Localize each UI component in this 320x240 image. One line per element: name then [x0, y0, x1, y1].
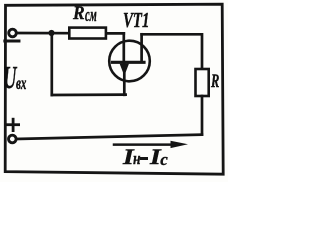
label Rcm value text — [0, 0, 228, 1]
transistor VT1 drain lead — [140, 34, 143, 62]
wire: load resistor down to bottom rail — [201, 96, 204, 135]
label R load resistor — [211, 72, 219, 91]
terminal: input top (-) — [9, 29, 17, 37]
transistor VT1 (p-channel FET) envelope circle — [109, 41, 150, 82]
label VT1 reference designator — [123, 11, 149, 32]
resistor R (load) body — [196, 69, 209, 96]
terminal: input bottom (+) — [9, 135, 17, 143]
wire: bottom rail — [17, 135, 203, 139]
resistor Rcm (bias resistor) body — [69, 28, 106, 39]
wire: drain to load resistor — [142, 34, 202, 69]
minus polarity mark — [5, 40, 19, 43]
label Uвх input voltage — [0, 0, 228, 1]
junction: node at top rail — [48, 30, 54, 36]
label In = Ic current text — [0, 0, 228, 1]
transistor VT1 source lead (from Rcm) — [122, 33, 125, 62]
wire: bias resistor to transistor source lead — [105, 32, 124, 35]
wire: top terminal to bias resistor — [17, 32, 70, 35]
transistor VT1 channel bar — [113, 61, 145, 64]
transistor VT1 gate lead with arrow — [123, 62, 126, 95]
wire: junction down the left side — [50, 33, 53, 95]
wire: lower gate rail to transistor — [52, 93, 126, 96]
current direction arrow In = Ic — [114, 143, 174, 146]
plus polarity mark — [8, 123, 19, 126]
